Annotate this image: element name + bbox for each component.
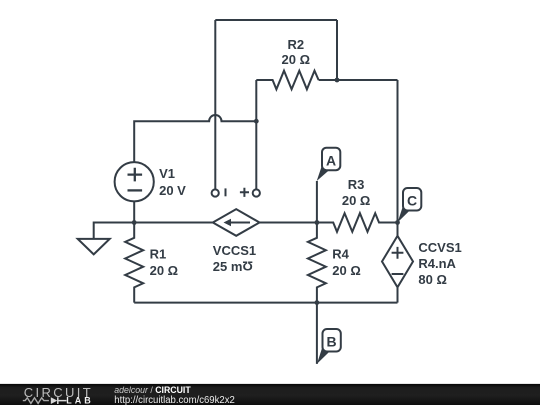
svg-text:V1: V1 <box>159 166 175 181</box>
wire CCVS1 bottom lead <box>397 287 399 302</box>
wire V1 bottom <box>133 201 135 222</box>
svg-text:R2: R2 <box>287 37 304 52</box>
svg-text:R4: R4 <box>332 247 349 262</box>
resistor R2 <box>256 71 318 90</box>
wire node B stub <box>316 303 318 364</box>
wire left vertical to minus control terminal <box>214 20 216 189</box>
footer bar <box>0 384 540 405</box>
node junction V1 bottom <box>132 220 137 225</box>
wire ground stub <box>94 223 135 239</box>
node B flag <box>317 329 341 364</box>
wire bottom horizontal <box>134 302 397 304</box>
node junction A <box>315 220 320 225</box>
node junction R2 right <box>335 78 340 83</box>
svg-text:Ω: Ω <box>242 259 252 274</box>
svg-text:20 Ω: 20 Ω <box>332 263 361 278</box>
svg-text:B: B <box>327 334 337 350</box>
wire main middle segment <box>260 222 317 224</box>
wire CCVS1 top lead <box>397 223 399 236</box>
svg-text:20 Ω: 20 Ω <box>282 52 311 67</box>
voltage source V1 <box>115 162 154 201</box>
wire node A stub <box>316 181 318 223</box>
node C flag <box>398 188 422 222</box>
dependent source VCCS1 <box>213 209 260 236</box>
svg-text:A: A <box>326 152 336 168</box>
wire R2 left lead down to plus control terminal <box>255 80 257 189</box>
svg-text:R3: R3 <box>348 177 365 192</box>
label V1 value <box>150 37 462 287</box>
wire right vertical down to node C junction <box>397 80 399 223</box>
svg-text:80 Ω: 80 Ω <box>418 272 447 287</box>
svg-text:20 Ω: 20 Ω <box>342 193 371 208</box>
wire top horizontal <box>215 19 337 21</box>
svg-text:CCVS1: CCVS1 <box>418 240 461 255</box>
node junction C <box>395 220 400 225</box>
wire main left segment <box>134 222 213 224</box>
VCCS1 control terminal minus <box>212 189 219 196</box>
svg-text:R4.nA: R4.nA <box>418 256 456 271</box>
svg-text:VCCS1: VCCS1 <box>213 243 256 258</box>
svg-text:20 Ω: 20 Ω <box>150 263 179 278</box>
footer logo resistor squiggle <box>23 398 49 404</box>
dependent source CCVS1 <box>382 236 413 287</box>
wire V1 top with hop over vertical wire <box>134 115 256 162</box>
node junction B <box>315 300 320 305</box>
wire R2 right lead to corner <box>319 79 398 81</box>
ground <box>78 239 110 255</box>
svg-text:25 m: 25 m <box>213 259 243 274</box>
svg-text:20 V: 20 V <box>159 183 186 198</box>
resistor R3 <box>317 213 398 232</box>
resistor R4 <box>308 223 326 303</box>
svg-text:R1: R1 <box>150 247 167 262</box>
node junction V1 to R2 lead <box>254 119 259 124</box>
svg-text:LAB: LAB <box>66 395 91 405</box>
svg-text:C: C <box>407 193 417 209</box>
resistor R1 <box>125 223 143 303</box>
svg-text:http://circuitlab.com/c69k2x2: http://circuitlab.com/c69k2x2 <box>114 395 235 405</box>
VCCS1 control terminal plus <box>253 189 260 196</box>
node A flag <box>317 148 341 181</box>
wire right vertical top to R2 <box>336 20 338 80</box>
footer logo diode <box>51 397 58 404</box>
